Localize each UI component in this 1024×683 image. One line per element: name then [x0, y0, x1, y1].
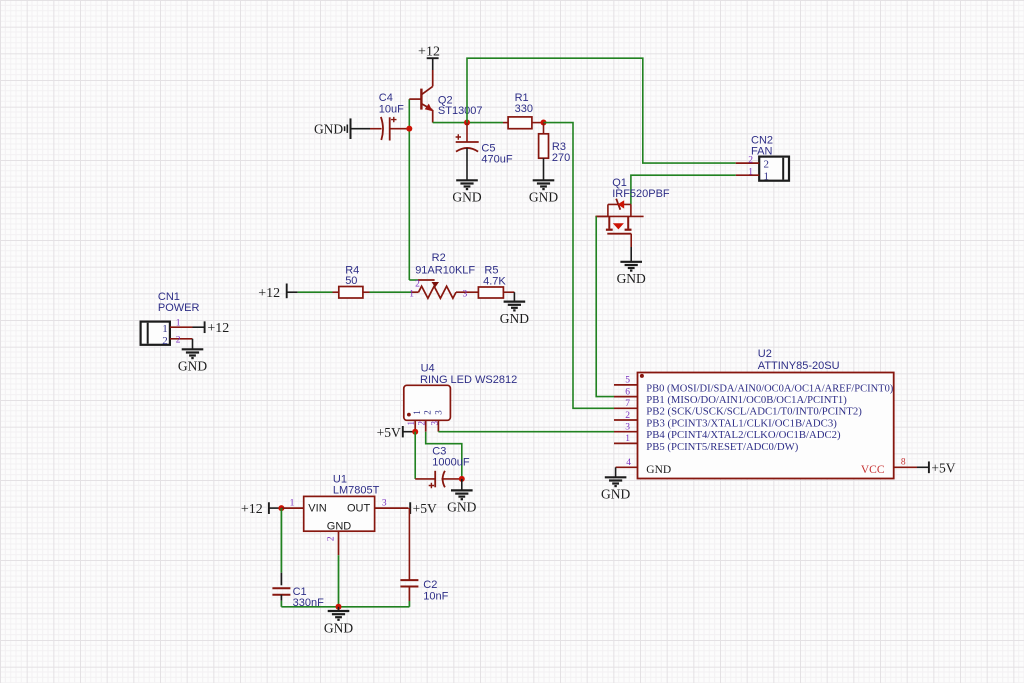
capacitor C5 — [456, 141, 479, 143]
svg-text:2: 2 — [415, 280, 420, 290]
svg-text:U4: U4 — [421, 362, 435, 374]
ground (U2) — [605, 477, 627, 486]
wire — [442, 478, 462, 480]
svg-text:GND: GND — [314, 121, 343, 136]
svg-text:GND: GND — [327, 520, 352, 532]
pin 2 (CN2) — [736, 162, 760, 164]
svg-text:+12: +12 — [241, 502, 263, 517]
wire — [917, 466, 929, 468]
pin 2 (U1) — [338, 531, 340, 555]
svg-text:3: 3 — [625, 423, 630, 433]
svg-text:+12: +12 — [418, 44, 440, 59]
resistor R1 — [503, 122, 508, 124]
pin 3 (U2) — [614, 431, 638, 433]
svg-text:330: 330 — [515, 103, 533, 115]
svg-text:470uF: 470uF — [481, 153, 512, 165]
wire — [192, 339, 194, 350]
svg-text:ST13007: ST13007 — [438, 105, 483, 117]
pin 1 (U1) — [281, 507, 303, 509]
pin 1 (U2) — [614, 442, 638, 444]
pin 1 (U4) — [414, 420, 416, 431]
wire — [466, 123, 468, 142]
resistor R5 — [478, 287, 503, 298]
pin 4 (U2) — [616, 466, 638, 468]
pin 6 (U2) — [614, 396, 638, 398]
ground (R3) — [533, 180, 555, 189]
svg-text:GND: GND — [601, 487, 630, 502]
ground (CN1) — [182, 349, 204, 358]
svg-text:1: 1 — [748, 167, 753, 177]
svg-text:VCC: VCC — [861, 464, 885, 476]
svg-text:2: 2 — [176, 335, 181, 345]
wire — [438, 431, 614, 433]
svg-text:270: 270 — [552, 152, 570, 164]
node junction Q2-C5 — [464, 120, 470, 126]
svg-text:5: 5 — [625, 376, 630, 386]
svg-text:1: 1 — [763, 170, 769, 182]
svg-text:LM7805T: LM7805T — [333, 484, 380, 496]
transistor Q2 — [409, 70, 432, 123]
svg-text:2: 2 — [422, 410, 432, 415]
svg-text:2: 2 — [417, 421, 427, 426]
wire — [280, 595, 282, 601]
power flag +5V (U1) — [409, 502, 411, 514]
node junction C4-Q2-R2 — [406, 126, 412, 132]
svg-text:3: 3 — [433, 410, 443, 415]
svg-text:+5V: +5V — [413, 501, 437, 516]
node junction U1 pin1 — [278, 505, 284, 511]
wire — [409, 279, 418, 281]
svg-text:R1: R1 — [515, 92, 529, 104]
svg-text:+12: +12 — [207, 321, 229, 336]
svg-text:PB2 (SCK/USCK/SCL/ADC1/T0/INT0: PB2 (SCK/USCK/SCL/ADC1/T0/INT0/PCINT2) — [646, 406, 862, 418]
svg-text:8: 8 — [901, 458, 906, 468]
svg-text:ATTINY85-20SU: ATTINY85-20SU — [758, 360, 840, 372]
ground (R5) — [504, 302, 526, 311]
svg-text:2: 2 — [763, 158, 769, 170]
pin 1 (CN1) — [170, 326, 193, 328]
pin 2 (U4) — [425, 420, 427, 431]
wire — [544, 123, 615, 409]
svg-text:R2: R2 — [432, 252, 446, 264]
svg-text:PB3 (PCINT3/XTAL1/CLKI/OC1B/AD: PB3 (PCINT3/XTAL1/CLKI/OC1B/ADC3) — [646, 417, 837, 429]
svg-text:1: 1 — [176, 318, 181, 328]
wire — [432, 58, 434, 70]
wire — [513, 292, 515, 301]
wire — [403, 431, 415, 433]
svg-text:1: 1 — [412, 410, 422, 415]
svg-text:C2: C2 — [423, 579, 437, 591]
svg-text:C1: C1 — [293, 586, 307, 598]
svg-text:RING LED WS2812: RING LED WS2812 — [420, 374, 517, 386]
svg-text:U2: U2 — [758, 348, 772, 360]
wire — [466, 148, 468, 180]
ground (C5) — [456, 180, 478, 189]
pin 2 (U2) — [614, 419, 638, 421]
pin 7 (U2) — [614, 407, 638, 409]
power flag +5V (U2) — [928, 461, 930, 473]
pin 2 (CN1) — [170, 338, 193, 340]
svg-text:1: 1 — [290, 499, 295, 509]
svg-text:6: 6 — [625, 387, 630, 397]
wire — [426, 432, 462, 479]
svg-text:4: 4 — [626, 458, 631, 468]
svg-text:POWER: POWER — [158, 302, 200, 314]
svg-text:1: 1 — [409, 289, 414, 299]
ground (Q1) — [620, 262, 642, 271]
svg-text:7: 7 — [625, 399, 630, 409]
svg-text:1: 1 — [162, 323, 168, 335]
wire — [414, 432, 416, 479]
svg-text:1000uF: 1000uF — [432, 456, 470, 468]
wire — [408, 99, 410, 280]
resistor R3 — [543, 123, 545, 134]
svg-text:GND: GND — [646, 464, 671, 476]
svg-text:OUT: OUT — [347, 503, 371, 515]
svg-text:3: 3 — [463, 289, 468, 299]
wire — [390, 128, 410, 130]
svg-text:GND: GND — [617, 271, 646, 286]
svg-text:3: 3 — [382, 499, 387, 509]
wire — [370, 291, 412, 293]
wire — [269, 507, 282, 509]
ground (C3) — [461, 479, 463, 491]
capacitor C2 — [400, 579, 418, 581]
wire — [338, 555, 340, 607]
svg-text:GND: GND — [324, 620, 353, 635]
capacitor C4 — [381, 117, 383, 140]
capacitor C3 — [434, 471, 436, 488]
pin 1 (CN2) — [736, 174, 760, 176]
wire — [408, 587, 410, 602]
svg-text:2: 2 — [625, 411, 630, 421]
svg-text:+5V: +5V — [931, 460, 955, 475]
pin 5 (U2) — [614, 384, 638, 386]
svg-text:R3: R3 — [552, 141, 566, 153]
wire — [615, 467, 617, 477]
wire — [281, 606, 409, 608]
svg-text:4.7K: 4.7K — [483, 276, 506, 288]
wire — [467, 58, 736, 163]
svg-text:10uF: 10uF — [379, 103, 404, 115]
svg-text:1: 1 — [625, 434, 630, 444]
ground (U1) — [338, 607, 340, 611]
wire — [631, 175, 736, 204]
svg-text:PB5 (PCINT5/RESET/ADC0/DW): PB5 (PCINT5/RESET/ADC0/DW) — [646, 441, 798, 453]
svg-text:3: 3 — [429, 421, 439, 426]
svg-text:50: 50 — [345, 275, 357, 287]
svg-text:PB1 (MISO/DO/AIN1/OC0B/OC1A/PC: PB1 (MISO/DO/AIN1/OC0B/OC1A/PCINT1) — [646, 394, 847, 406]
wire — [433, 122, 503, 124]
resistor R4 — [333, 291, 339, 293]
wire — [287, 291, 298, 293]
node junction U1 GND rail — [336, 604, 342, 610]
node junction U4 pin1 +5V — [412, 429, 418, 435]
svg-text:C4: C4 — [379, 92, 393, 104]
svg-text:GND: GND — [447, 500, 476, 515]
svg-text:GND: GND — [178, 359, 207, 374]
svg-text:PB4 (PCINT4/XTAL2/CLKO/OC1B/AD: PB4 (PCINT4/XTAL2/CLKO/OC1B/ADC2) — [646, 429, 841, 441]
svg-text:2: 2 — [748, 155, 753, 165]
svg-text:+5V: +5V — [377, 425, 401, 440]
node junction C3-GND — [459, 476, 465, 482]
potentiometer R2 — [418, 279, 435, 281]
ground flag (C4 left) — [345, 118, 351, 139]
pin 3 (U1) — [375, 507, 409, 509]
pin 3 (U4) — [437, 420, 439, 431]
svg-text:IRF520PBF: IRF520PBF — [612, 188, 670, 200]
wire — [193, 326, 205, 328]
capacitor C1 — [272, 587, 290, 589]
svg-text:GND: GND — [452, 190, 481, 205]
svg-text:VIN: VIN — [308, 503, 326, 515]
svg-text:+12: +12 — [258, 286, 280, 301]
svg-text:2: 2 — [162, 335, 168, 347]
svg-text:GND: GND — [529, 190, 558, 205]
power flag +12 (CN1) — [204, 321, 206, 333]
svg-text:GND: GND — [500, 311, 529, 326]
svg-text:91AR10KLF: 91AR10KLF — [415, 264, 475, 276]
svg-text:PB0 (MOSI/DI/SDA/AIN0/OC0A/OC1: PB0 (MOSI/DI/SDA/AIN0/OC0A/OC1A/AREF/PCI… — [646, 382, 893, 394]
svg-text:2: 2 — [326, 536, 336, 541]
node junction R1-R3 — [541, 120, 547, 126]
svg-text:1: 1 — [406, 421, 416, 426]
wire — [408, 508, 410, 580]
svg-text:10nF: 10nF — [423, 590, 448, 602]
wire — [280, 508, 282, 573]
wire — [596, 215, 608, 217]
wire — [351, 128, 371, 130]
wire — [630, 234, 632, 247]
